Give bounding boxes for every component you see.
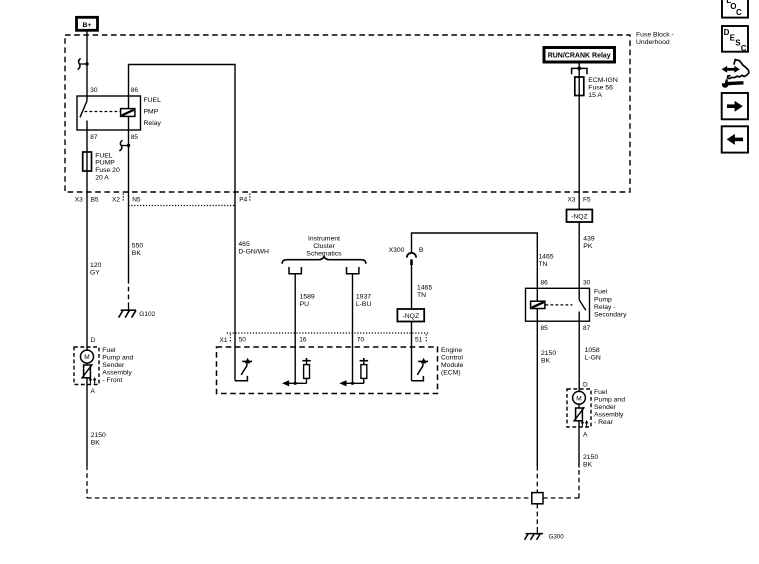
connector option box -NQZ top (567, 210, 593, 223)
fuse ECM-IGN Fuse 56 (575, 77, 584, 96)
wire secondary relay 85 down (536, 321, 538, 492)
relay coil 86-85 (121, 109, 135, 117)
wire X300 B over to secondary relay pin 86 (412, 233, 538, 301)
svg-text:Cluster: Cluster (313, 243, 335, 250)
bussed tap symbol under relay (572, 67, 587, 75)
svg-text:2150: 2150 (91, 432, 106, 439)
dashed wire splice to G300 (536, 504, 538, 527)
pin labels secondary relay (541, 280, 591, 333)
svg-text:86: 86 (131, 87, 139, 94)
svg-text:B5: B5 (91, 196, 99, 203)
in-line connector X300 (407, 253, 416, 265)
svg-text:1589: 1589 (300, 293, 315, 300)
wire cluster to ECM pin 16 (294, 274, 296, 384)
relay FUEL PMP Relay box (77, 96, 141, 130)
label Fuel Pump Relay - Secondary (594, 289, 627, 319)
secondary relay switch 30-87 (579, 288, 586, 321)
icon shortcut arrows and wrench (722, 60, 749, 88)
svg-text:1465: 1465 (417, 285, 432, 292)
svg-text:PU: PU (300, 301, 310, 308)
sender resistor front (82, 363, 93, 384)
svg-text:BK: BK (91, 440, 101, 447)
svg-text:120: 120 (90, 262, 102, 269)
svg-text:Module: Module (441, 362, 464, 369)
svg-text:M: M (576, 395, 581, 402)
ECM boundary (217, 347, 438, 394)
wire rear pump A down (578, 427, 580, 468)
wire front pump A to ground run (86, 385, 88, 499)
in-line connector clip on 85 wire (119, 140, 130, 151)
svg-text:C: C (741, 44, 747, 53)
svg-text:86: 86 (541, 280, 549, 287)
svg-text:550: 550 (132, 243, 144, 250)
svg-text:16: 16 (299, 337, 307, 344)
wire secondary relay 87 to fuel pump rear (578, 321, 580, 391)
wire pin 86 inside relay (128, 96, 130, 109)
svg-text:BK: BK (132, 250, 142, 257)
svg-text:85: 85 (131, 134, 139, 141)
svg-text:Pump and: Pump and (102, 355, 133, 362)
svg-text:G102: G102 (139, 311, 155, 318)
svg-text:PK: PK (583, 243, 593, 250)
label FUEL PMP Relay (144, 97, 162, 127)
label X300 B (389, 247, 424, 254)
secondary relay dashed link (546, 304, 573, 306)
wire label 2150 BK rear (583, 454, 598, 469)
relay internal dashed link (85, 111, 121, 113)
svg-text:B+: B+ (83, 22, 92, 29)
svg-text:Pump: Pump (594, 296, 612, 303)
wire pin 85 to N5 (128, 116, 130, 192)
wire label 120 GY (90, 262, 102, 277)
dotted connector marks X2 / P4 (123, 194, 250, 206)
svg-text:P4: P4 (239, 196, 247, 203)
svg-text:Sender: Sender (102, 362, 125, 369)
fuse block underhood boundary (65, 35, 630, 192)
svg-text:D-GN/WH: D-GN/WH (238, 248, 269, 255)
svg-text:87: 87 (583, 325, 591, 332)
motor M rear (573, 391, 586, 404)
wire pin 86 up and over to P4 (129, 65, 236, 193)
wire label 1465 TN mid (417, 285, 432, 300)
wire label 1937 L-BU (356, 293, 372, 308)
float arrows front (89, 377, 97, 384)
pin labels relay 1 (90, 87, 138, 141)
svg-text:PUMP: PUMP (95, 160, 115, 167)
sender resistor rear (574, 404, 585, 427)
svg-text:X3: X3 (75, 196, 83, 203)
svg-text:1058: 1058 (585, 347, 600, 354)
svg-text:C: C (736, 8, 742, 17)
svg-text:15 A: 15 A (588, 92, 602, 99)
wire label 465 D-GN/WH (238, 241, 269, 256)
svg-text:2150: 2150 (541, 350, 556, 357)
wire label 2150 BK mid (541, 350, 556, 365)
svg-text:X3: X3 (568, 196, 576, 203)
wire P4 to ECM pin 50 (234, 192, 236, 381)
svg-text:2150: 2150 (583, 454, 598, 461)
pull-up and monitor pin 16 (282, 358, 311, 386)
fuse FUEL PUMP Fuse 20 (83, 152, 92, 171)
svg-text:30: 30 (583, 280, 591, 287)
svg-text:1937: 1937 (356, 293, 371, 300)
svg-text:Relay -: Relay - (594, 304, 616, 311)
svg-text:50: 50 (239, 337, 247, 344)
svg-text:465: 465 (238, 241, 250, 248)
svg-text:D: D (91, 337, 96, 344)
ground G102 (119, 304, 136, 318)
svg-text:X300: X300 (389, 247, 405, 254)
wire label 550 BK (132, 243, 144, 258)
icon box LOC (722, 0, 748, 18)
label Instrument Cluster Schematics (306, 235, 342, 257)
driver output pin 51 (412, 358, 429, 381)
relay switch 30-87 (80, 96, 87, 130)
brace instrument cluster (282, 257, 366, 264)
svg-text:Instrument: Instrument (308, 235, 340, 242)
icon box back arrow (722, 126, 748, 152)
splice junction S (532, 493, 543, 504)
svg-text:L-GN: L-GN (585, 354, 601, 361)
svg-text:30: 30 (90, 87, 98, 94)
wire -NQZ mid to ECM pin 51 (411, 322, 413, 381)
cluster terminal cup 16 (289, 267, 301, 274)
wire RUN/CRANK to fuse (578, 63, 580, 192)
svg-text:Fuse 56: Fuse 56 (588, 85, 613, 92)
svg-text:D: D (583, 381, 588, 388)
svg-text:GY: GY (90, 270, 100, 277)
icon box DESC (722, 26, 748, 53)
svg-text:PMP: PMP (144, 109, 159, 116)
svg-text:439: 439 (583, 236, 595, 243)
fuel pump and sender assembly front boundary (74, 347, 99, 385)
svg-text:51: 51 (415, 337, 423, 344)
svg-text:Fuse 20: Fuse 20 (95, 167, 120, 174)
secondary relay coil (531, 301, 545, 308)
svg-text:BK: BK (583, 462, 593, 469)
wire X300 to -NQZ mid (411, 265, 413, 309)
label FUEL PUMP Fuse 20 20 A (95, 152, 120, 181)
svg-text:1465: 1465 (538, 253, 553, 260)
svg-text:Fuel: Fuel (594, 389, 608, 396)
label ECM-IGN Fuse 56 15 A (588, 77, 618, 99)
connector option box -NQZ mid (397, 309, 424, 322)
wire label 1589 PU (300, 293, 315, 308)
svg-text:- Rear: - Rear (594, 419, 614, 426)
svg-text:Relay: Relay (144, 120, 162, 127)
wire label 1058 L-GN (585, 347, 601, 362)
svg-text:F5: F5 (583, 196, 591, 203)
wire N5 to G102 (128, 192, 130, 304)
svg-text:70: 70 (357, 337, 365, 344)
svg-text:Underhood: Underhood (636, 39, 670, 46)
svg-text:Fuse Block -: Fuse Block - (636, 32, 674, 39)
svg-text:-NQZ: -NQZ (402, 313, 419, 320)
wire B+ to relay pin 30 (86, 31, 88, 96)
svg-text:G300: G300 (549, 533, 565, 540)
label Fuel Pump and Sender Assembly - Front (102, 347, 133, 384)
labels X1 and ECM pins (220, 337, 423, 344)
svg-text:Assembly: Assembly (102, 369, 132, 376)
wire coil to pin 85 (536, 309, 538, 322)
relay Fuel Pump Relay Secondary box (526, 288, 590, 321)
svg-text:RUN/CRANK Relay: RUN/CRANK Relay (548, 53, 611, 60)
svg-text:Sender: Sender (594, 404, 617, 411)
svg-text:Fuel: Fuel (594, 289, 608, 296)
svg-text:FUEL: FUEL (144, 97, 162, 104)
svg-text:Secondary: Secondary (594, 312, 627, 319)
in-line connector clip on B+ wire (78, 58, 89, 69)
svg-text:Assembly: Assembly (594, 411, 624, 418)
label Engine Control Module ECM (441, 347, 464, 377)
svg-text:TN: TN (417, 292, 426, 299)
svg-text:N5: N5 (132, 196, 141, 203)
wire cluster to ECM pin 70 (352, 274, 354, 384)
svg-text:A: A (91, 388, 96, 395)
dashed ground bus wire right (543, 467, 579, 498)
wire pin 87 to B5 (86, 130, 88, 192)
ground G300 (525, 527, 544, 540)
fuel pump and sender assembly rear boundary (567, 389, 591, 427)
svg-text:(ECM): (ECM) (441, 370, 461, 377)
svg-text:TN: TN (538, 261, 547, 268)
svg-text:BK: BK (541, 358, 551, 365)
svg-text:A: A (583, 432, 588, 439)
relay RUN/CRANK box (544, 48, 615, 63)
svg-text:- Front: - Front (102, 377, 122, 384)
svg-text:X1: X1 (220, 337, 228, 344)
battery terminal B+ (77, 17, 98, 30)
cluster terminal cup 70 (347, 267, 359, 274)
icon box forward arrow (722, 93, 748, 119)
wire F5 to secondary relay pin 30 (578, 192, 580, 288)
wire label 439 PK (583, 236, 595, 251)
svg-text:-NQZ: -NQZ (571, 214, 588, 221)
wire label 1465 TN right (538, 253, 553, 268)
svg-text:L-BU: L-BU (356, 301, 372, 308)
svg-text:ECM-IGN: ECM-IGN (588, 77, 618, 84)
svg-text:Pump and: Pump and (594, 396, 625, 403)
dashed ground bus wire left (87, 497, 532, 499)
motor M front (81, 350, 94, 363)
driver output pin 50 (235, 358, 252, 381)
wire B5 to fuel pump front (86, 192, 88, 350)
svg-text:B: B (419, 247, 424, 254)
svg-text:Engine: Engine (441, 347, 462, 354)
svg-text:X2: X2 (112, 196, 120, 203)
float arrows rear (581, 420, 589, 427)
svg-text:87: 87 (90, 134, 98, 141)
label Fuse Block - Underhood (636, 32, 674, 47)
svg-text:Fuel: Fuel (102, 347, 116, 354)
wire label 2150 BK front (91, 432, 106, 447)
connector X1 dotted row (227, 333, 429, 342)
svg-text:FUEL: FUEL (95, 152, 113, 159)
svg-text:Control: Control (441, 355, 463, 362)
svg-text:20 A: 20 A (95, 175, 109, 182)
fuse block bottom terminal labels (75, 196, 591, 203)
svg-text:M: M (84, 354, 89, 361)
svg-text:85: 85 (541, 325, 549, 332)
pull-up and monitor pin 70 (339, 358, 368, 386)
label Fuel Pump and Sender Assembly - Rear (594, 389, 625, 426)
